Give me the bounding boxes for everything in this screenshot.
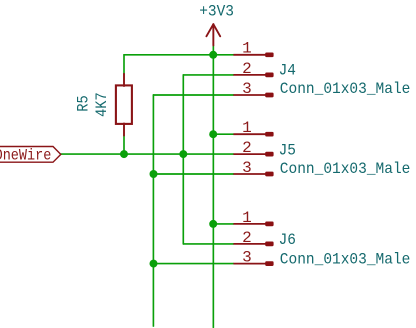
svg-text:1: 1	[242, 40, 252, 58]
svg-text:2: 2	[242, 229, 252, 247]
svg-text:2: 2	[242, 139, 252, 157]
svg-text:Conn_01x03_Male: Conn_01x03_Male	[280, 79, 411, 98]
svg-text:J4: J4	[279, 61, 296, 80]
svg-text:3: 3	[242, 249, 252, 267]
svg-text:J5: J5	[279, 141, 296, 160]
svg-text:4K7: 4K7	[94, 92, 111, 117]
svg-text:3: 3	[242, 80, 252, 98]
svg-text:2: 2	[242, 60, 252, 78]
svg-text:Conn_01x03_Male: Conn_01x03_Male	[280, 159, 411, 178]
svg-text:3: 3	[242, 159, 252, 177]
svg-text:1: 1	[242, 119, 252, 137]
svg-text:1: 1	[242, 209, 252, 227]
svg-text:Conn_01x03_Male: Conn_01x03_Male	[280, 250, 411, 269]
svg-text:J6: J6	[279, 231, 296, 250]
svg-text:+3V3: +3V3	[199, 2, 234, 21]
svg-text:R5: R5	[75, 95, 92, 111]
svg-text:OneWire: OneWire	[0, 148, 51, 165]
